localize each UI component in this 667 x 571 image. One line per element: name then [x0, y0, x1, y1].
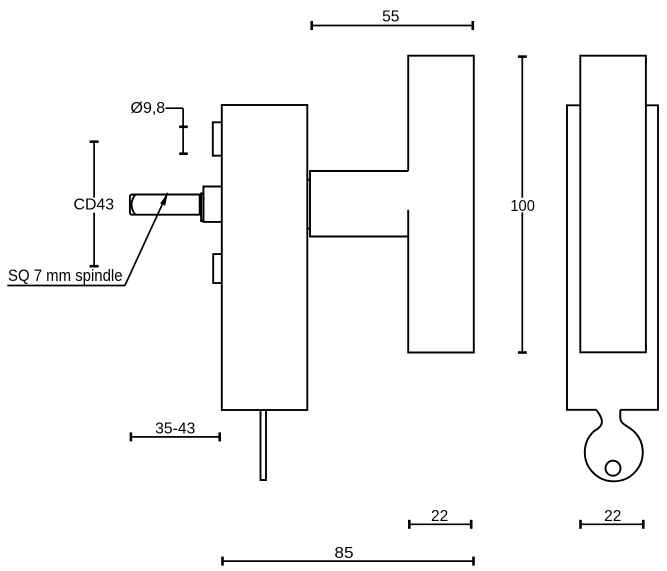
bottom screw boss [213, 254, 222, 283]
dimension 22 (grip depth) [409, 508, 471, 529]
dimension CD43 (screw centres) [74, 142, 115, 267]
lower stem rod below plate [261, 410, 267, 480]
key bow below plate [585, 410, 643, 482]
spindle rod [130, 195, 200, 215]
spindle ring [201, 193, 203, 221]
svg-text:22: 22 [431, 508, 448, 525]
key hole circle [606, 461, 621, 476]
grip bar (side view) [408, 56, 474, 353]
svg-text:SQ 7 mm spindle: SQ 7 mm spindle [8, 267, 123, 285]
side view backplate [222, 105, 307, 410]
neck flange lines [307, 180, 310, 229]
dimension 35-43 (spindle length) [131, 420, 220, 441]
spindle collar [203, 187, 221, 222]
front view backplate [567, 105, 658, 410]
svg-text:CD43: CD43 [74, 197, 115, 214]
label SQ 7 mm spindle with leader [7, 193, 168, 286]
svg-text:35-43: 35-43 [155, 420, 195, 437]
handle neck (side view) [310, 171, 408, 237]
top screw boss [213, 122, 222, 155]
dimension Ø9,8 (boss diameter) [131, 100, 188, 155]
dimension 100 (right of grip) [510, 57, 535, 353]
dimension 55 (top) [312, 8, 473, 30]
svg-text:85: 85 [334, 545, 353, 562]
svg-text:55: 55 [382, 8, 399, 25]
dimension 22 (front plate width) [581, 508, 644, 529]
svg-text:100: 100 [510, 198, 535, 215]
front view grip bar [580, 56, 646, 353]
svg-text:22: 22 [604, 508, 621, 525]
dimension 85 (bottom) [223, 545, 474, 565]
svg-text:Ø9,8: Ø9,8 [131, 100, 166, 117]
